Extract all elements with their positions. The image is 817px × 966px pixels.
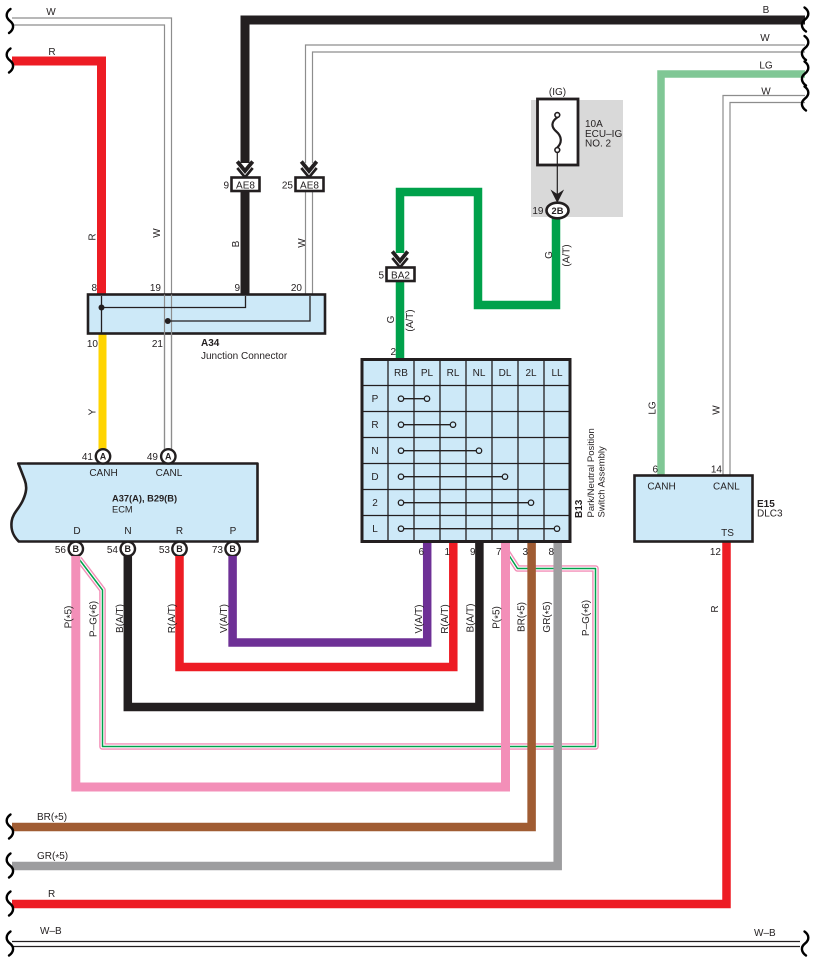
svg-text:6: 6 (418, 547, 424, 558)
svg-text:A37(A), B29(B): A37(A), B29(B) (112, 494, 177, 504)
svg-text:(A/T): (A/T) (562, 244, 573, 266)
wire R red from DLC3 TS pin 12 to left edge (7, 542, 727, 916)
svg-text:LL: LL (551, 368, 563, 379)
svg-text:R: R (176, 526, 183, 537)
svg-text:CANL: CANL (713, 482, 740, 493)
svg-text:LG: LG (759, 61, 773, 72)
svg-text:Junction Connector: Junction Connector (201, 351, 288, 362)
switch contacts 2 row RB-2L (398, 500, 533, 505)
junction connector A34 (87, 283, 325, 450)
switch contacts N row RB-NL (398, 448, 481, 453)
wire R red from top-left to A34 pin 8 (7, 47, 102, 295)
ECM pin 73 circle B (212, 542, 240, 556)
park/neutral position switch assembly B13 (362, 360, 570, 542)
svg-text:54: 54 (107, 545, 119, 556)
svg-text:CANL: CANL (156, 468, 183, 479)
svg-text:10: 10 (87, 339, 99, 350)
svg-text:DL: DL (499, 368, 512, 379)
svg-text:W: W (46, 7, 56, 18)
svg-text:20: 20 (291, 283, 303, 294)
wire LG light green from top-right to DLC3 CANH pin 6 (648, 61, 809, 476)
svg-text:V(A/T): V(A/T) (414, 605, 425, 634)
svg-text:B: B (176, 544, 183, 554)
svg-text:21: 21 (152, 339, 164, 350)
svg-text:L: L (372, 524, 378, 535)
wire W1 white from top-left to ECM CANL pin 49 (7, 7, 172, 450)
svg-text:B: B (229, 544, 236, 554)
svg-text:12: 12 (710, 547, 722, 558)
svg-text:B: B (125, 544, 132, 554)
svg-text:D: D (371, 472, 378, 483)
svg-text:CANH: CANH (89, 468, 117, 479)
svg-text:V(A/T): V(A/T) (219, 604, 230, 633)
svg-text:73: 73 (212, 545, 224, 556)
wire B black from AE8 to top-right (231, 5, 808, 295)
svg-text:AE8: AE8 (300, 180, 319, 191)
wire P-G(*6) pink-green stripe from ECM pin 56 to switch pin 7 (79, 552, 596, 747)
B13 name label (574, 428, 608, 518)
wire P(*5) pink from ECM pin 56 to switch pin 7 (64, 542, 506, 788)
svg-text:G: G (544, 251, 555, 259)
svg-text:9: 9 (223, 181, 229, 192)
svg-text:5: 5 (378, 271, 384, 282)
svg-text:(A/T): (A/T) (405, 309, 416, 331)
svg-text:B(A/T): B(A/T) (466, 604, 477, 633)
svg-text:P–G(*6): P–G(*6) (581, 600, 594, 636)
wire R(A/T) red from ECM pin 53 to switch pin 1 (167, 542, 453, 668)
svg-text:8: 8 (91, 283, 97, 294)
svg-text:7: 7 (496, 547, 502, 558)
svg-text:2: 2 (390, 347, 396, 358)
svg-text:CANH: CANH (647, 482, 675, 493)
svg-text:56: 56 (55, 545, 67, 556)
svg-text:3: 3 (522, 547, 528, 558)
svg-text:2L: 2L (525, 368, 537, 379)
DLC3 E15 (635, 465, 784, 559)
connector AE8 pin 25 (282, 162, 324, 192)
svg-text:B: B (763, 5, 770, 16)
switch contacts L row RB-LL (398, 526, 559, 531)
wire W3 white from top-right to DLC3 CANL pin 14 (712, 87, 809, 476)
svg-text:P: P (372, 394, 379, 405)
svg-text:A: A (100, 452, 107, 462)
svg-text:9: 9 (234, 283, 240, 294)
fuse 10A ECU-IG NO.2 (538, 87, 623, 165)
svg-text:B: B (73, 544, 80, 554)
svg-text:P: P (230, 526, 237, 537)
svg-text:TS: TS (721, 528, 734, 539)
svg-text:B13: B13 (574, 499, 585, 518)
wire G green from 2B through BA2 to switch pin 2 (386, 192, 573, 360)
wire V(A/T) violet from ECM pin 73 to switch pin 6 (219, 542, 427, 643)
wire Y yellow from A34 pin 10 to ECM CANH pin 41 (88, 334, 103, 451)
svg-text:A: A (165, 452, 172, 462)
svg-text:1: 1 (444, 547, 450, 558)
svg-text:8: 8 (548, 547, 554, 558)
ECM pin 49 circle A (147, 449, 176, 463)
svg-text:D: D (73, 526, 80, 537)
svg-text:G: G (386, 315, 397, 323)
svg-text:A34: A34 (201, 338, 220, 349)
svg-text:Switch Assembly: Switch Assembly (597, 446, 608, 518)
svg-text:W–B: W–B (754, 928, 776, 939)
svg-text:P(*5): P(*5) (64, 606, 77, 629)
svg-text:W–B: W–B (40, 926, 62, 937)
svg-text:W: W (760, 33, 770, 44)
svg-text:25: 25 (282, 181, 294, 192)
ECM A37(A),B29(B) (11, 464, 257, 542)
svg-text:AE8: AE8 (236, 180, 255, 191)
svg-text:B: B (231, 240, 242, 247)
svg-text:R: R (371, 420, 378, 431)
wire BR(*5) brown from switch pin 3 to left edge (7, 542, 532, 839)
svg-text:R: R (710, 605, 721, 612)
connector AE8 pin 9 (223, 162, 259, 192)
svg-text:BR(*5): BR(*5) (517, 602, 530, 632)
svg-text:2B: 2B (552, 206, 564, 216)
connector BA2 pin 5 (378, 252, 414, 282)
svg-text:W: W (712, 405, 723, 415)
svg-text:W: W (297, 238, 308, 248)
svg-text:RB: RB (394, 368, 408, 379)
svg-text:W: W (152, 228, 163, 238)
connector 2B pin 19 with arrow (532, 152, 568, 218)
svg-text:BA2: BA2 (391, 270, 410, 281)
svg-text:R(A/T): R(A/T) (440, 604, 451, 633)
svg-text:ECM: ECM (112, 505, 133, 515)
svg-text:P(*5): P(*5) (492, 606, 505, 629)
svg-text:R: R (48, 889, 55, 900)
svg-text:BR(*5): BR(*5) (37, 812, 67, 825)
svg-text:6: 6 (652, 465, 658, 476)
switch contacts D row RB-DL (398, 474, 507, 479)
ECM pin 53 circle B (159, 542, 187, 556)
wire GR(*5) gray from switch pin 8 to left edge (7, 542, 558, 878)
svg-text:P–G(*6): P–G(*6) (89, 601, 102, 637)
ECM pin 54 circle B (107, 542, 135, 556)
svg-text:2: 2 (372, 498, 378, 509)
wire B(A/T) black from ECM pin 54 to switch pin 9 (115, 542, 479, 708)
svg-text:R(A/T): R(A/T) (167, 604, 178, 633)
ECM pin 41 circle A (82, 449, 110, 463)
svg-text:LG: LG (648, 401, 659, 415)
svg-text:49: 49 (147, 452, 159, 463)
svg-text:(IG): (IG) (549, 87, 566, 98)
fuse block background panel (531, 100, 623, 217)
svg-text:Park/Neutral Position: Park/Neutral Position (586, 428, 597, 517)
svg-text:19: 19 (532, 206, 544, 217)
svg-text:N: N (124, 526, 131, 537)
svg-text:53: 53 (159, 545, 171, 556)
svg-text:GR(*5): GR(*5) (542, 601, 555, 632)
svg-text:R: R (88, 233, 99, 240)
wire W-B bottom rail (7, 926, 809, 956)
svg-text:N: N (371, 446, 378, 457)
svg-text:41: 41 (82, 452, 94, 463)
switch contacts R row RB-RL (398, 422, 455, 427)
svg-text:NO. 2: NO. 2 (585, 139, 612, 150)
svg-text:NL: NL (473, 368, 486, 379)
svg-text:PL: PL (421, 368, 434, 379)
switch contacts P row RB-PL (398, 396, 429, 401)
svg-text:RL: RL (447, 368, 460, 379)
svg-text:R: R (48, 47, 55, 58)
svg-text:B(A/T): B(A/T) (115, 604, 126, 633)
wire W2 white from AE8 pin 25 to top-right (297, 33, 808, 295)
svg-text:W: W (761, 87, 771, 98)
svg-text:Y: Y (88, 408, 99, 415)
svg-text:GR(*5): GR(*5) (37, 851, 68, 864)
svg-text:19: 19 (150, 283, 162, 294)
svg-text:DLC3: DLC3 (757, 509, 783, 520)
switch pin number labels (418, 547, 554, 558)
svg-text:9: 9 (470, 547, 476, 558)
ECM pin 56 circle B (55, 542, 83, 556)
svg-text:14: 14 (711, 465, 723, 476)
